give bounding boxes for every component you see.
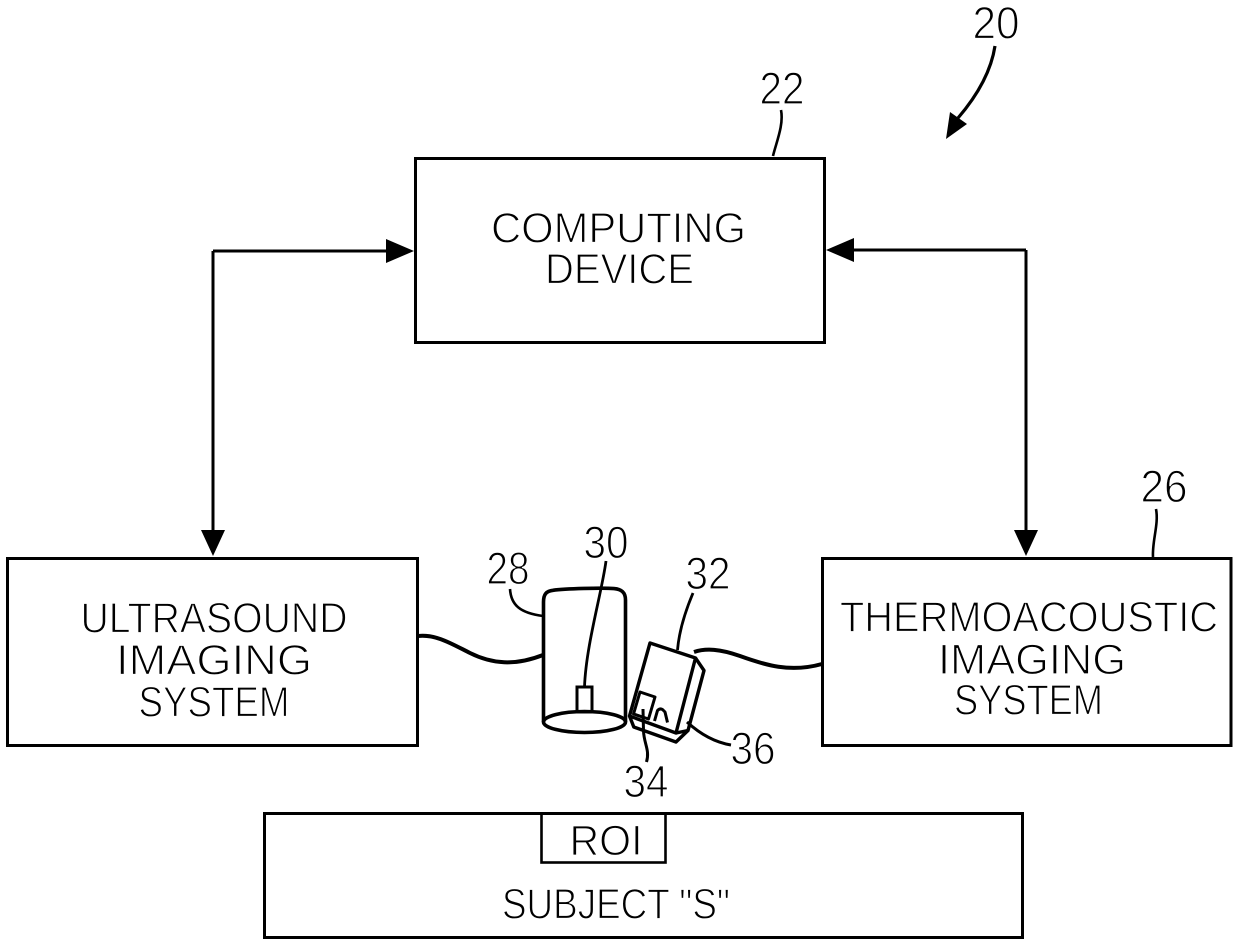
svg-text:32: 32 [686,548,731,599]
svg-text:30: 30 [584,517,629,568]
svg-text:THERMOACOUSTIC: THERMOACOUSTIC [840,594,1218,642]
svg-text:ROI: ROI [570,817,643,865]
svg-text:34: 34 [624,756,669,807]
svg-text:SUBJECT "S": SUBJECT "S" [502,881,730,929]
svg-text:22: 22 [760,63,805,114]
svg-text:SYSTEM: SYSTEM [954,677,1103,725]
svg-text:36: 36 [731,723,776,774]
svg-text:IMAGING: IMAGING [116,637,312,685]
svg-text:26: 26 [1141,461,1188,512]
svg-text:28: 28 [487,543,530,594]
svg-text:SYSTEM: SYSTEM [139,679,290,727]
svg-text:ULTRASOUND: ULTRASOUND [81,595,348,643]
svg-text:20: 20 [973,0,1020,49]
svg-text:DEVICE: DEVICE [545,246,694,294]
